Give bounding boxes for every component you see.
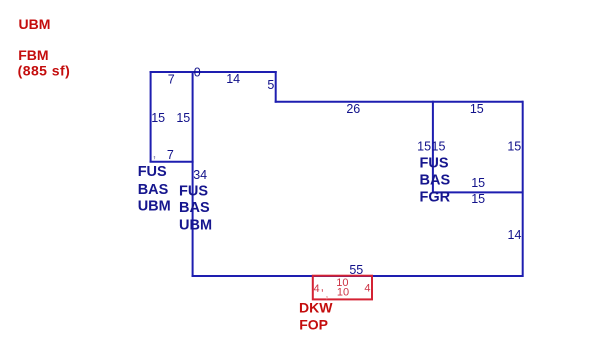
- svg-text:15: 15: [471, 192, 485, 206]
- svg-text:15: 15: [470, 102, 484, 116]
- svg-text:15: 15: [417, 139, 431, 153]
- svg-text:5: 5: [267, 78, 274, 92]
- svg-text:FBM: FBM: [18, 47, 48, 63]
- svg-text:7: 7: [167, 148, 174, 162]
- svg-text:55: 55: [349, 263, 363, 277]
- svg-text:FOP: FOP: [299, 316, 328, 332]
- svg-text:UBM: UBM: [138, 199, 171, 215]
- svg-text:7: 7: [168, 72, 175, 86]
- svg-text:UBM: UBM: [179, 217, 212, 233]
- svg-text:(885 sf): (885 sf): [18, 63, 71, 79]
- svg-text:FUS: FUS: [420, 156, 449, 172]
- svg-text:34: 34: [193, 168, 207, 182]
- svg-text:4: 4: [364, 283, 370, 295]
- svg-text:10: 10: [337, 287, 349, 299]
- svg-text:26: 26: [346, 102, 360, 116]
- svg-text:BAS: BAS: [179, 200, 210, 216]
- svg-text:BAS: BAS: [138, 182, 169, 198]
- svg-text:15: 15: [151, 111, 165, 125]
- svg-text:FGR: FGR: [420, 190, 451, 206]
- svg-text:15: 15: [432, 139, 446, 153]
- svg-text:UBM: UBM: [19, 16, 51, 32]
- svg-text:14: 14: [508, 228, 522, 242]
- svg-text:,: ,: [325, 285, 329, 300]
- svg-text:FUS: FUS: [179, 183, 208, 199]
- svg-text:,: ,: [321, 282, 324, 294]
- svg-text:DKW: DKW: [299, 299, 333, 315]
- svg-text:,: ,: [152, 144, 156, 160]
- svg-text:BAS: BAS: [420, 173, 451, 189]
- svg-text:15: 15: [507, 139, 521, 153]
- svg-text:FUS: FUS: [138, 164, 167, 180]
- svg-text:15: 15: [176, 111, 190, 125]
- svg-text:15: 15: [471, 176, 485, 190]
- svg-text:14: 14: [226, 72, 240, 86]
- svg-text:4: 4: [313, 283, 319, 295]
- svg-text:0: 0: [194, 65, 201, 79]
